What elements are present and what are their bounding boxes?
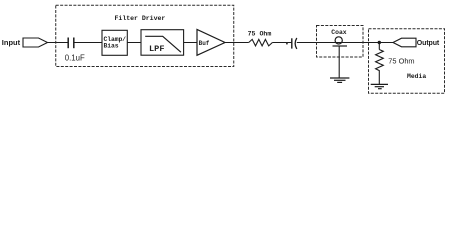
- filter driver dashed box: [56, 5, 234, 66]
- svg-text:75 Ohm: 75 Ohm: [388, 56, 414, 65]
- capacitor C1 0.1uF: [68, 38, 74, 49]
- ground coax shield: [330, 78, 349, 82]
- wire capacitor to output node: [297, 42, 393, 44]
- svg-text:Input: Input: [2, 38, 21, 47]
- svg-text:Buf: Buf: [199, 40, 210, 47]
- wire resistor to polarized capacitor: [272, 42, 291, 44]
- clamp/bias block U1: [102, 30, 127, 55]
- svg-text:Filter Driver: Filter Driver: [115, 15, 166, 22]
- ground termination: [371, 84, 388, 88]
- input port connector: [23, 38, 48, 47]
- buffer amp U3: [197, 30, 225, 56]
- polarity dot: [286, 43, 288, 45]
- svg-text:Output: Output: [417, 40, 440, 47]
- LPF block U2: [141, 30, 184, 56]
- output port connector: [393, 38, 416, 47]
- coax shield tap bar: [333, 45, 348, 47]
- resistor R2 75 Ohm termination: [376, 43, 384, 85]
- svg-text:Bias: Bias: [104, 42, 119, 49]
- svg-text:LPF: LPF: [149, 44, 164, 54]
- resistor R1 75 Ohm series: [249, 39, 273, 46]
- svg-text:0.1uF: 0.1uF: [65, 54, 85, 63]
- wire input to capacitor: [48, 42, 68, 44]
- junction node: [378, 41, 381, 44]
- coax dashed box: [317, 26, 364, 58]
- coax shield circle: [335, 37, 342, 44]
- wire buffer to resistor R1: [225, 42, 249, 44]
- svg-text:Media: Media: [407, 73, 426, 80]
- wire LPF to buffer: [184, 42, 197, 44]
- media dashed box: [369, 29, 445, 94]
- wire clamp/bias to LPF: [127, 42, 141, 44]
- svg-text:Coax: Coax: [331, 29, 347, 36]
- wire shield to ground: [338, 46, 340, 78]
- polarized capacitor C2: [292, 38, 297, 49]
- wire capacitor to clamp/bias: [74, 42, 102, 44]
- svg-text:75 Ohm: 75 Ohm: [248, 31, 272, 38]
